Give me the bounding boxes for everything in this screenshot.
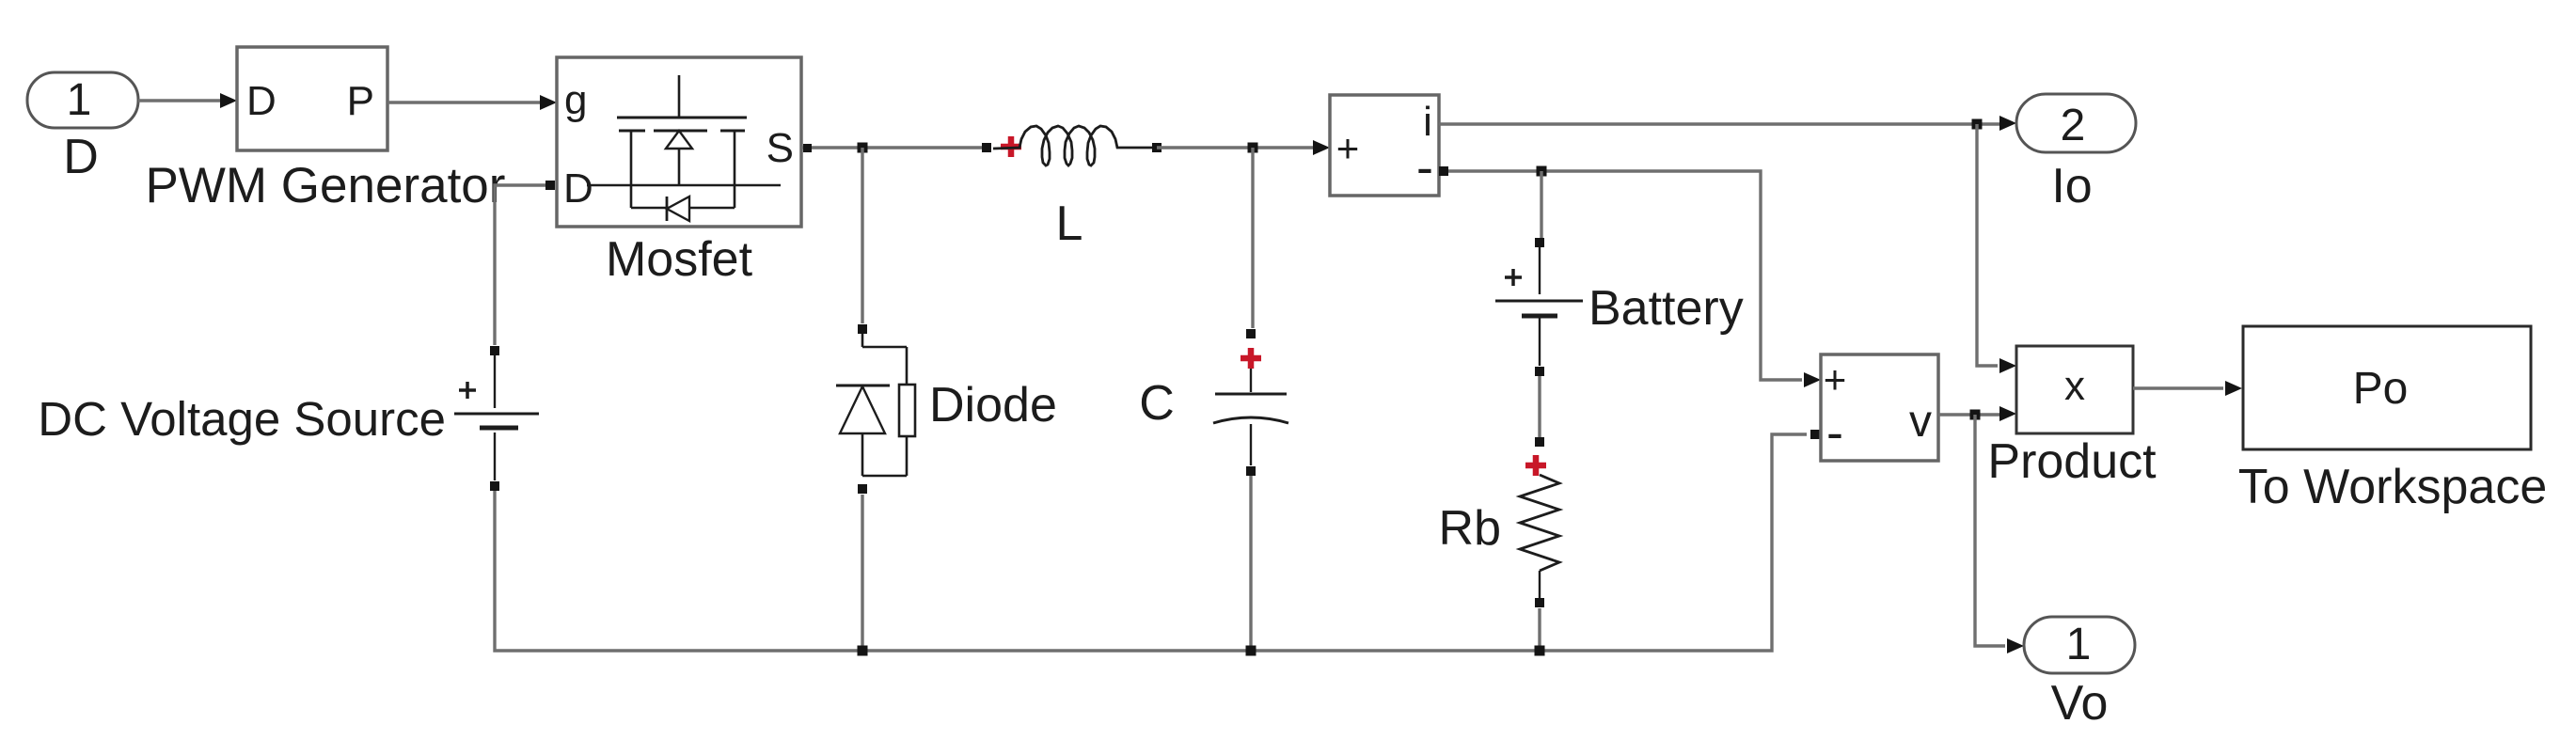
DC source long plate xyxy=(454,413,539,416)
mosfet icon bottom rail xyxy=(631,207,735,210)
svg-text:PWM Generator: PWM Generator xyxy=(146,158,506,213)
wire v output to product input 2 xyxy=(1938,413,1999,416)
wire battery branch down xyxy=(1540,171,1542,238)
inport oval 1 (D) xyxy=(27,72,138,184)
resistor Rb zigzag xyxy=(1520,475,1559,571)
svg-text:Rb: Rb xyxy=(1439,501,1501,556)
arrowhead into Io xyxy=(1999,116,2016,131)
mosfet icon channel segments xyxy=(619,130,745,133)
block Mosfet U1 xyxy=(557,57,801,227)
node junction diode branch xyxy=(858,143,868,153)
node junction capacitor branch xyxy=(1248,143,1258,153)
wire product to To Workspace xyxy=(2133,386,2223,389)
svg-text:Io: Io xyxy=(2051,159,2092,213)
wire PWM P to Mosfet g xyxy=(387,95,557,110)
port square capacitor top xyxy=(1246,329,1256,338)
battery + sign xyxy=(1505,269,1522,286)
wire current - output to voltage + input xyxy=(1444,171,1802,380)
wire capacitor to ground rail xyxy=(1249,476,1252,651)
port square Rb top xyxy=(1535,437,1544,447)
arrowhead into To Workspace xyxy=(2225,381,2242,396)
mosfet icon source lead xyxy=(678,149,681,185)
wire diode to ground rail xyxy=(861,495,863,651)
svg-text:Diode: Diode xyxy=(929,378,1057,433)
svg-text:D: D xyxy=(246,78,277,124)
block PWM Generator xyxy=(146,47,506,213)
svg-text:Battery: Battery xyxy=(1588,281,1744,336)
svg-text:g: g xyxy=(564,77,587,123)
wire capacitor branch down xyxy=(1251,148,1254,328)
inductor L polarity + xyxy=(1001,136,1021,157)
junction Rb ground xyxy=(1535,646,1545,656)
svg-text:To Workspace: To Workspace xyxy=(2238,460,2548,514)
capacitor top lead xyxy=(1250,369,1252,392)
port square diode cathode xyxy=(858,324,867,334)
svg-text:DC Voltage Source: DC Voltage Source xyxy=(38,392,446,446)
mosfet icon drain lead xyxy=(678,75,681,118)
port square Mosfet D input xyxy=(545,181,555,190)
svg-text:S: S xyxy=(766,125,794,171)
block Product xyxy=(1987,346,2157,489)
port square DC source + xyxy=(490,346,499,355)
DC source bottom lead xyxy=(494,433,496,480)
arrowhead voltage + input xyxy=(1804,372,1821,387)
wire inductor to current measurement xyxy=(1157,146,1317,149)
port square DC source - xyxy=(490,481,499,491)
port square battery + xyxy=(1535,238,1544,247)
resistor Rb bottom stub xyxy=(1539,571,1541,598)
capacitor C polarity + xyxy=(1241,348,1261,369)
battery top lead xyxy=(1539,247,1541,294)
svg-text:i: i xyxy=(1423,99,1432,145)
port square battery - xyxy=(1535,367,1544,376)
arrowhead product input 1 xyxy=(1999,358,2016,373)
diode anode stub xyxy=(862,433,907,476)
DC source top lead xyxy=(494,355,496,408)
diode D1 top stub xyxy=(862,334,907,347)
junction battery branch xyxy=(1537,166,1547,177)
block Current Measurement xyxy=(1330,95,1439,196)
svg-text:-: - xyxy=(1416,139,1433,196)
mosfet body diode bar xyxy=(666,197,669,221)
svg-text:1: 1 xyxy=(67,75,92,125)
outport oval 1 (Vo) xyxy=(2024,617,2135,731)
wire i output to Io xyxy=(1439,122,2001,125)
capacitor top plate xyxy=(1215,393,1287,396)
svg-text:x: x xyxy=(2064,363,2085,409)
arrowhead into Vo xyxy=(2007,638,2024,653)
port square inductor left xyxy=(982,143,991,152)
junction diode ground xyxy=(858,646,868,656)
arrowhead into current measurement xyxy=(1313,140,1330,155)
wire Mosfet S to node xyxy=(801,146,987,149)
diode snubber branch xyxy=(906,347,909,476)
DC source + sign xyxy=(459,382,476,399)
svg-text:P: P xyxy=(347,78,374,124)
ground rail wire xyxy=(495,434,1807,651)
battery short plate xyxy=(1522,314,1557,319)
mosfet icon right leg xyxy=(734,131,736,208)
port square Rb bottom xyxy=(1535,598,1544,607)
port square Voltage Measurement - input xyxy=(1810,430,1820,439)
mosfet icon left leg xyxy=(630,131,633,208)
wire product input 1 feed xyxy=(1977,124,1998,366)
block To Workspace (Po) xyxy=(2238,326,2548,514)
block Voltage Measurement xyxy=(1821,354,1938,461)
svg-text:2: 2 xyxy=(2061,101,2086,150)
battery long plate xyxy=(1495,300,1583,303)
resistor Rb polarity + xyxy=(1525,455,1546,476)
mosfet icon D rail xyxy=(587,184,781,187)
svg-text:1: 1 xyxy=(2066,620,2092,669)
svg-text:Product: Product xyxy=(1987,434,2157,489)
diode triangle xyxy=(840,386,885,433)
junction Vo feed xyxy=(1970,410,1981,420)
wire D oval to PWM Generator xyxy=(138,93,237,108)
svg-text:Vo: Vo xyxy=(2051,676,2109,731)
wire battery to Rb xyxy=(1538,376,1541,437)
svg-text:L: L xyxy=(1056,197,1083,251)
diode snubber resistor xyxy=(899,385,915,436)
port square capacitor bottom xyxy=(1246,466,1256,476)
battery bottom lead xyxy=(1539,318,1541,366)
svg-text:Mosfet: Mosfet xyxy=(606,232,753,287)
wire diode branch down xyxy=(861,148,863,323)
wire Mosfet D to DC source xyxy=(495,185,545,345)
svg-text:C: C xyxy=(1139,376,1175,431)
capacitor bottom lead xyxy=(1250,424,1252,465)
svg-text:v: v xyxy=(1909,397,1932,447)
svg-text:+: + xyxy=(1824,357,1847,401)
port square inductor right xyxy=(1152,143,1162,152)
wire Rb to ground rail xyxy=(1538,608,1541,651)
arrowhead product input 2 xyxy=(1999,406,2016,421)
diode cathode bar xyxy=(836,385,890,387)
svg-text:D: D xyxy=(63,130,99,184)
port square Mosfet S xyxy=(803,144,812,152)
svg-text:+: + xyxy=(1336,126,1360,170)
mosfet icon gate bar xyxy=(617,117,747,119)
junction Io / product feed xyxy=(1972,119,1983,130)
inductor L coil xyxy=(993,126,1153,165)
svg-text:-: - xyxy=(1826,404,1843,461)
mosfet body diode triangle xyxy=(667,197,689,221)
outport oval 2 (Io) xyxy=(2016,94,2136,213)
port square current - output xyxy=(1439,166,1448,176)
wire Vo feed down xyxy=(1975,415,2005,646)
capacitor bottom plate xyxy=(1213,417,1288,423)
svg-text:D: D xyxy=(563,165,593,212)
port square diode anode xyxy=(858,484,867,494)
DC source short plate xyxy=(480,426,518,431)
svg-text:Po: Po xyxy=(2353,364,2409,414)
junction capacitor ground xyxy=(1246,646,1256,656)
mosfet icon arrow triangle xyxy=(666,131,692,149)
